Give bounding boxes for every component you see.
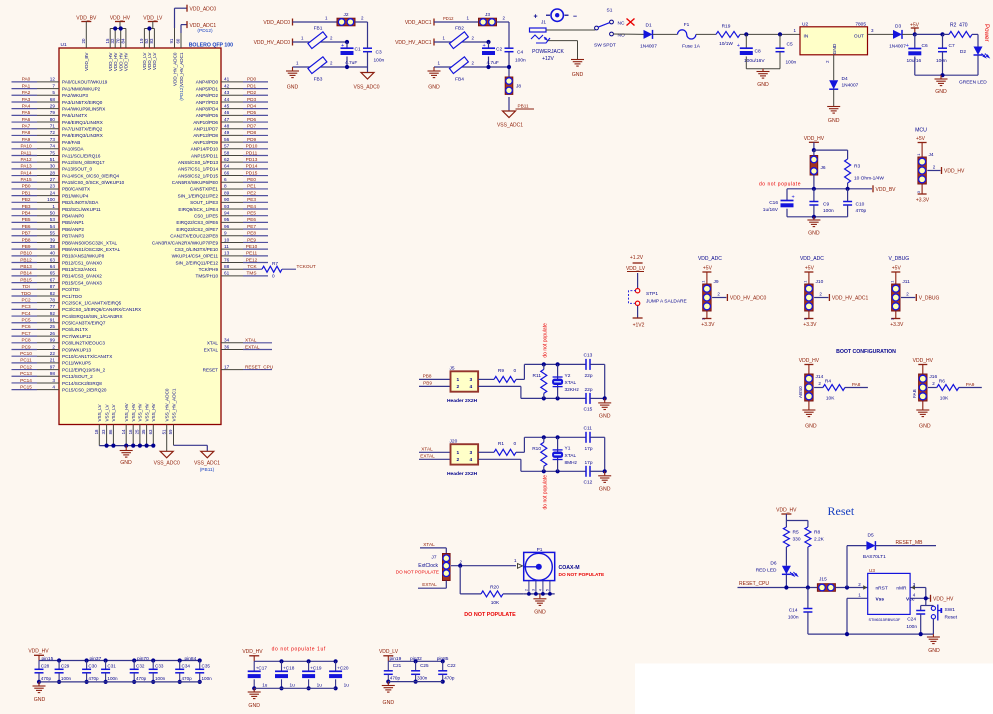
svg-text:C25: C25 bbox=[420, 663, 429, 668]
svg-text:PC15: PC15 bbox=[20, 384, 32, 389]
svg-text:PD1: PD1 bbox=[247, 83, 257, 88]
svg-text:26: 26 bbox=[50, 331, 56, 336]
svg-text:470p: 470p bbox=[41, 676, 52, 681]
svg-text:VDD_ADC0: VDD_ADC0 bbox=[263, 20, 290, 26]
svg-text:PA5/LIN4TX: PA5/LIN4TX bbox=[62, 113, 87, 118]
svg-text:78: 78 bbox=[50, 297, 56, 302]
svg-text:PA12/SIN_0/EIRQ17: PA12/SIN_0/EIRQ17 bbox=[62, 160, 105, 165]
svg-text:(PD12): (PD12) bbox=[197, 28, 213, 34]
svg-text:PA15: PA15 bbox=[20, 177, 32, 182]
svg-text:91: 91 bbox=[169, 38, 174, 43]
svg-text:10K: 10K bbox=[826, 396, 835, 402]
svg-text:ANS7/CS1_1/PD14: ANS7/CS1_1/PD14 bbox=[178, 167, 219, 172]
svg-text:J8: J8 bbox=[516, 84, 521, 90]
svg-text:PB2/LIN0TX/SDA: PB2/LIN0TX/SDA bbox=[62, 200, 99, 205]
svg-text:PB13: PB13 bbox=[20, 264, 32, 269]
svg-text:VSS_ADC0: VSS_ADC0 bbox=[353, 84, 379, 90]
svg-text:PA8/EIRQ3/LIN3RX: PA8/EIRQ3/LIN3RX bbox=[62, 133, 103, 138]
svg-text:+5V: +5V bbox=[703, 266, 713, 272]
svg-text:PC12: PC12 bbox=[20, 364, 32, 369]
svg-text:R2 470: R2 470 bbox=[950, 22, 968, 28]
svg-text:FB3: FB3 bbox=[314, 77, 323, 83]
svg-text:C14: C14 bbox=[789, 607, 798, 613]
svg-text:RESET_CPU: RESET_CPU bbox=[245, 364, 274, 369]
svg-text:C9: C9 bbox=[823, 201, 829, 207]
svg-text:0: 0 bbox=[514, 441, 517, 447]
svg-text:100n: 100n bbox=[61, 676, 72, 681]
svg-text:Reset: Reset bbox=[945, 615, 958, 621]
svg-text:MCU: MCU bbox=[915, 127, 927, 133]
svg-text:ANS5/CS0_1/PD13: ANS5/CS0_1/PD13 bbox=[178, 160, 219, 165]
svg-text:PB5: PB5 bbox=[22, 217, 31, 222]
svg-text:R20: R20 bbox=[490, 584, 499, 590]
svg-text:58: 58 bbox=[224, 150, 230, 155]
svg-text:32: 32 bbox=[110, 38, 115, 43]
svg-text:PA4/WKUP9/LIN5RX: PA4/WKUP9/LIN5RX bbox=[62, 106, 105, 111]
svg-text:PB4: PB4 bbox=[22, 211, 31, 216]
svg-text:SIN_1/EIRQ21/PE2: SIN_1/EIRQ21/PE2 bbox=[178, 193, 219, 198]
svg-text:PC7/WKUP12: PC7/WKUP12 bbox=[62, 334, 92, 339]
svg-text:PC9/WKUP13: PC9/WKUP13 bbox=[62, 347, 92, 352]
svg-text:GND: GND bbox=[919, 424, 931, 430]
svg-text:PD7: PD7 bbox=[247, 124, 257, 129]
svg-text:J14: J14 bbox=[816, 374, 824, 380]
svg-text:R3: R3 bbox=[854, 164, 860, 170]
svg-text:BOOT CONFIGURATION: BOOT CONFIGURATION bbox=[836, 349, 896, 355]
svg-text:SOUT_1/PE3: SOUT_1/PE3 bbox=[190, 200, 218, 205]
svg-text:PC6/LIN1TX: PC6/LIN1TX bbox=[62, 327, 88, 332]
svg-text:C15: C15 bbox=[584, 406, 593, 412]
svg-text:10: 10 bbox=[224, 237, 230, 242]
svg-text:+3.3V: +3.3V bbox=[701, 322, 715, 328]
svg-text:VDD_HV: VDD_HV bbox=[113, 52, 118, 72]
svg-text:91: 91 bbox=[50, 318, 56, 323]
svg-text:GND: GND bbox=[120, 460, 132, 466]
svg-text:470p: 470p bbox=[856, 208, 867, 214]
svg-text:PD3: PD3 bbox=[247, 97, 257, 102]
svg-text:3: 3 bbox=[52, 378, 55, 383]
svg-text:Y1: Y1 bbox=[565, 446, 571, 452]
svg-text:82: 82 bbox=[50, 291, 56, 296]
svg-text:PE1: PE1 bbox=[247, 184, 256, 189]
svg-text:EXTAL: EXTAL bbox=[420, 454, 435, 459]
svg-text:54: 54 bbox=[50, 224, 56, 229]
svg-text:PA6/EIRQ1/LIN4RX: PA6/EIRQ1/LIN4RX bbox=[62, 120, 103, 125]
svg-text:PB7: PB7 bbox=[22, 231, 31, 236]
svg-text:D2: D2 bbox=[960, 49, 966, 55]
svg-text:J16: J16 bbox=[929, 374, 937, 380]
svg-text:PE7: PE7 bbox=[247, 224, 256, 229]
svg-text:28: 28 bbox=[50, 170, 56, 175]
svg-text:GND: GND bbox=[248, 703, 260, 709]
svg-text:PC5/CAN3TX/EIRQ7: PC5/CAN3TX/EIRQ7 bbox=[62, 321, 106, 326]
svg-text:GND: GND bbox=[832, 43, 838, 54]
svg-text:Fuse 1A: Fuse 1A bbox=[682, 43, 701, 49]
svg-text:CS3_0/LIN3TX/PE10: CS3_0/LIN3TX/PE10 bbox=[175, 247, 219, 252]
svg-text:pin19: pin19 bbox=[390, 656, 402, 662]
svg-text:VDD_BV: VDD_BV bbox=[76, 16, 97, 22]
svg-text:PA8: PA8 bbox=[852, 382, 861, 387]
svg-text:C34: C34 bbox=[182, 663, 191, 668]
svg-text:17: 17 bbox=[224, 364, 230, 369]
svg-text:VDD_HV: VDD_HV bbox=[28, 649, 49, 655]
svg-text:PC6: PC6 bbox=[21, 324, 31, 329]
svg-text:PA1: PA1 bbox=[22, 83, 31, 88]
svg-text:ANP12/PD8: ANP12/PD8 bbox=[193, 133, 218, 138]
svg-text:1: 1 bbox=[457, 450, 460, 456]
svg-text:3: 3 bbox=[470, 377, 473, 383]
svg-text:PC1/TDO: PC1/TDO bbox=[62, 294, 82, 299]
svg-text:65: 65 bbox=[50, 271, 56, 276]
svg-text:VDD_HV: VDD_HV bbox=[124, 52, 129, 72]
svg-text:1u/16V: 1u/16V bbox=[763, 207, 779, 213]
svg-text:GND: GND bbox=[428, 84, 440, 90]
svg-text:C1: C1 bbox=[355, 47, 361, 53]
svg-text:ANP4/PD0: ANP4/PD0 bbox=[196, 80, 219, 85]
svg-text:100u/16V: 100u/16V bbox=[744, 58, 765, 64]
svg-text:74: 74 bbox=[50, 144, 56, 149]
svg-text:PB13/CS2/ANX1: PB13/CS2/ANX1 bbox=[62, 267, 97, 272]
svg-text:GND: GND bbox=[757, 82, 769, 88]
svg-text:VSS_HV: VSS_HV bbox=[131, 402, 136, 421]
svg-text:C30: C30 bbox=[88, 663, 97, 668]
svg-text:PD13: PD13 bbox=[246, 157, 258, 162]
svg-text:0: 0 bbox=[272, 273, 275, 278]
svg-text:18: 18 bbox=[94, 429, 99, 434]
svg-text:+: + bbox=[737, 43, 740, 49]
svg-text:PA8: PA8 bbox=[22, 130, 31, 135]
svg-text:7: 7 bbox=[52, 83, 55, 88]
svg-text:VDD_ADC1: VDD_ADC1 bbox=[405, 20, 432, 26]
svg-text:PA11/SCL/EIRQ16: PA11/SCL/EIRQ16 bbox=[62, 153, 101, 158]
svg-text:4: 4 bbox=[52, 384, 55, 389]
svg-text:ExtClock: ExtClock bbox=[418, 563, 438, 569]
svg-text:PA5: PA5 bbox=[22, 110, 31, 115]
svg-text:U2: U2 bbox=[802, 21, 808, 27]
svg-text:4: 4 bbox=[470, 457, 473, 463]
svg-text:57: 57 bbox=[224, 144, 230, 149]
svg-text:PB9/ANS1/OSC32K_EXTAL: PB9/ANS1/OSC32K_EXTAL bbox=[62, 247, 121, 252]
svg-text:61: 61 bbox=[224, 271, 230, 276]
svg-text:C2: C2 bbox=[496, 47, 502, 53]
svg-text:STP1: STP1 bbox=[646, 291, 658, 297]
svg-text:100n: 100n bbox=[107, 676, 118, 681]
svg-text:PA7/LIN3TX/EIRQ2: PA7/LIN3TX/EIRQ2 bbox=[62, 127, 103, 132]
svg-text:D1: D1 bbox=[646, 22, 652, 28]
svg-text:VSS_HV: VSS_HV bbox=[151, 402, 156, 421]
svg-text:80: 80 bbox=[50, 117, 56, 122]
svg-text:100: 100 bbox=[47, 197, 55, 202]
svg-text:−: − bbox=[573, 14, 577, 21]
svg-text:C22: C22 bbox=[447, 663, 456, 668]
svg-text:PA10: PA10 bbox=[20, 144, 32, 149]
svg-text:C7: C7 bbox=[949, 43, 955, 49]
svg-text:67: 67 bbox=[50, 277, 56, 282]
svg-text:D3: D3 bbox=[895, 24, 901, 30]
svg-text:R4: R4 bbox=[825, 378, 831, 384]
svg-text:PB5/ANP1: PB5/ANP1 bbox=[62, 220, 84, 225]
svg-text:+3.3V: +3.3V bbox=[890, 322, 904, 328]
svg-text:PC3/CS0_1/EIRQ6/CAN4RX/CAN1RX: PC3/CS0_1/EIRQ6/CAN4RX/CAN1RX bbox=[62, 307, 141, 312]
svg-text:VDD_ADC0: VDD_ADC0 bbox=[190, 7, 217, 13]
svg-text:VDD_LV: VDD_LV bbox=[143, 16, 163, 22]
svg-text:60: 60 bbox=[176, 38, 181, 43]
svg-text:PB11: PB11 bbox=[518, 104, 530, 109]
svg-text:C32: C32 bbox=[136, 663, 145, 668]
svg-text:VDD_HV: VDD_HV bbox=[913, 358, 934, 364]
svg-text:ANP5/PD1: ANP5/PD1 bbox=[196, 86, 219, 91]
svg-text:VDD_HV_ADC0: VDD_HV_ADC0 bbox=[172, 52, 177, 86]
svg-text:49: 49 bbox=[224, 130, 230, 135]
svg-text:TCK/PH9: TCK/PH9 bbox=[199, 267, 219, 272]
svg-text:98: 98 bbox=[50, 371, 56, 376]
svg-text:8MHz: 8MHz bbox=[565, 460, 578, 466]
svg-text:Header 2X2H: Header 2X2H bbox=[447, 398, 478, 404]
svg-text:do not populate: do not populate bbox=[543, 323, 549, 358]
svg-text:VDD_HV_ADC1: VDD_HV_ADC1 bbox=[179, 52, 184, 86]
svg-text:RESET: RESET bbox=[203, 367, 219, 372]
svg-text:TDO: TDO bbox=[21, 291, 31, 296]
svg-text:GND: GND bbox=[383, 700, 395, 706]
svg-text:79: 79 bbox=[50, 110, 56, 115]
svg-text:PB7/ANP3: PB7/ANP3 bbox=[62, 234, 84, 239]
svg-text:PC12/EIRQ19/SIN_2: PC12/EIRQ19/SIN_2 bbox=[62, 367, 106, 372]
svg-text:1u: 1u bbox=[262, 683, 268, 688]
svg-text:PC3: PC3 bbox=[21, 304, 31, 309]
svg-text:+3.3V: +3.3V bbox=[916, 198, 930, 204]
svg-text:do not populate: do not populate bbox=[543, 475, 549, 510]
svg-text:PD11: PD11 bbox=[246, 150, 258, 155]
svg-text:PD14: PD14 bbox=[246, 164, 258, 169]
svg-text:ANP13/PD9: ANP13/PD9 bbox=[193, 140, 218, 145]
svg-text:470p: 470p bbox=[444, 676, 455, 681]
svg-text:+5V: +5V bbox=[892, 266, 902, 272]
svg-text:ANP11/PD7: ANP11/PD7 bbox=[194, 127, 219, 132]
svg-text:10u/16: 10u/16 bbox=[907, 58, 922, 64]
svg-text:PB4/ANP0: PB4/ANP0 bbox=[62, 214, 84, 219]
svg-text:+C18: +C18 bbox=[283, 665, 295, 670]
svg-text:TCKOUT: TCKOUT bbox=[297, 264, 316, 269]
svg-text:4: 4 bbox=[539, 589, 543, 591]
svg-text:D4: D4 bbox=[842, 76, 848, 82]
svg-text:87: 87 bbox=[50, 284, 56, 289]
svg-text:PB0: PB0 bbox=[22, 184, 31, 189]
svg-text:ANP10/PD6: ANP10/PD6 bbox=[193, 120, 218, 125]
svg-text:PA9: PA9 bbox=[966, 382, 975, 387]
svg-text:0: 0 bbox=[514, 368, 517, 374]
svg-text:10K: 10K bbox=[491, 600, 500, 606]
svg-text:PC8/LIN2TX/EOUC3: PC8/LIN2TX/EOUC3 bbox=[62, 341, 105, 346]
svg-text:VDD_LV: VDD_LV bbox=[152, 52, 157, 70]
svg-text:73: 73 bbox=[50, 137, 56, 142]
svg-text:35: 35 bbox=[141, 429, 146, 434]
svg-text:17p: 17p bbox=[585, 446, 593, 452]
svg-text:34: 34 bbox=[224, 338, 230, 343]
svg-text:PC8: PC8 bbox=[21, 338, 31, 343]
svg-text:100n: 100n bbox=[202, 676, 213, 681]
svg-text:4.7uF: 4.7uF bbox=[345, 60, 357, 66]
svg-text:+: + bbox=[341, 43, 344, 49]
svg-text:EIRQ22/CS3_0/PE6: EIRQ22/CS3_0/PE6 bbox=[176, 220, 218, 225]
svg-text:PA0/CLKOUT/WKU19: PA0/CLKOUT/WKU19 bbox=[62, 80, 108, 85]
svg-text:XTAL: XTAL bbox=[421, 447, 433, 452]
svg-text:PA13: PA13 bbox=[20, 164, 32, 169]
svg-text:FB2: FB2 bbox=[455, 26, 464, 32]
svg-text:29: 29 bbox=[50, 103, 56, 108]
svg-text:PE4: PE4 bbox=[247, 204, 256, 209]
svg-text:PE9: PE9 bbox=[247, 237, 256, 242]
svg-text:J6: J6 bbox=[821, 165, 826, 171]
svg-text:68: 68 bbox=[50, 97, 56, 102]
svg-text:100n: 100n bbox=[823, 208, 834, 214]
svg-text:30: 30 bbox=[50, 164, 56, 169]
svg-text:330n: 330n bbox=[417, 676, 428, 681]
svg-text:62: 62 bbox=[224, 157, 230, 162]
svg-text:VDD_HV_ADC0: VDD_HV_ADC0 bbox=[730, 296, 767, 302]
svg-text:84: 84 bbox=[121, 38, 126, 43]
svg-text:PC2: PC2 bbox=[21, 297, 31, 302]
svg-text:J20: J20 bbox=[450, 439, 458, 445]
svg-text:PE12: PE12 bbox=[246, 257, 258, 262]
svg-text:470p: 470p bbox=[182, 676, 193, 681]
svg-text:DO NOT POPULATE: DO NOT POPULATE bbox=[559, 572, 606, 578]
svg-text:C12: C12 bbox=[584, 479, 593, 485]
svg-text:PB12/CS1_0/ANX0: PB12/CS1_0/ANX0 bbox=[62, 260, 102, 265]
svg-text:+3.3V: +3.3V bbox=[803, 322, 817, 328]
svg-text:ANP7/PD3: ANP7/PD3 bbox=[196, 100, 219, 105]
svg-text:40: 40 bbox=[50, 251, 56, 256]
svg-text:11: 11 bbox=[224, 244, 229, 249]
svg-text:PA14/SCK_0/CS0_0/EIRQ4: PA14/SCK_0/CS0_0/EIRQ4 bbox=[62, 173, 120, 178]
svg-text:PA13/SOUT_0: PA13/SOUT_0 bbox=[62, 167, 92, 172]
svg-text:7805: 7805 bbox=[855, 21, 866, 27]
svg-text:BOLERO QFP 100: BOLERO QFP 100 bbox=[189, 42, 233, 48]
svg-text:PA7: PA7 bbox=[22, 124, 31, 129]
svg-text:43: 43 bbox=[224, 90, 230, 95]
svg-text:PA2/WKUP3: PA2/WKUP3 bbox=[62, 93, 88, 98]
svg-text:100n: 100n bbox=[936, 58, 947, 64]
svg-text:51: 51 bbox=[161, 429, 166, 434]
svg-text:100n: 100n bbox=[374, 58, 385, 64]
svg-text:CAN5TX/PE1: CAN5TX/PE1 bbox=[190, 187, 219, 192]
svg-text:J15: J15 bbox=[819, 577, 827, 583]
svg-text:VDD_BV: VDD_BV bbox=[876, 187, 897, 193]
svg-text:13: 13 bbox=[224, 251, 230, 256]
svg-text:VSS_HV: VSS_HV bbox=[138, 402, 143, 421]
svg-text:PA15/CS0_0/SCK_0/WKUP10: PA15/CS0_0/SCK_0/WKUP10 bbox=[62, 180, 125, 185]
svg-text:PB12: PB12 bbox=[20, 257, 32, 262]
svg-text:PD4: PD4 bbox=[247, 103, 257, 108]
svg-text:SW1: SW1 bbox=[945, 607, 956, 613]
svg-text:PD0: PD0 bbox=[247, 77, 257, 82]
svg-text:nRST: nRST bbox=[876, 585, 888, 591]
svg-text:GND: GND bbox=[935, 89, 947, 95]
svg-text:VSS_ADC1: VSS_ADC1 bbox=[497, 123, 523, 129]
svg-text:1u: 1u bbox=[317, 683, 323, 688]
svg-text:STM6315RBW13F: STM6315RBW13F bbox=[869, 618, 902, 622]
svg-text:D5: D5 bbox=[868, 533, 874, 539]
svg-text:C33: C33 bbox=[155, 663, 164, 668]
svg-text:PA12: PA12 bbox=[20, 157, 32, 162]
svg-text:XTAL: XTAL bbox=[423, 542, 435, 547]
svg-text:C4: C4 bbox=[517, 50, 523, 56]
svg-text:PB15: PB15 bbox=[20, 277, 32, 282]
svg-text:nMR: nMR bbox=[896, 585, 907, 591]
svg-text:PB9: PB9 bbox=[22, 244, 31, 249]
svg-text:C16: C16 bbox=[769, 200, 778, 206]
svg-text:PE2: PE2 bbox=[247, 190, 256, 195]
svg-text:+C20: +C20 bbox=[337, 665, 349, 670]
svg-text:45: 45 bbox=[224, 103, 230, 108]
svg-text:+C19: +C19 bbox=[310, 665, 322, 670]
svg-text:POWERJACK: POWERJACK bbox=[532, 49, 564, 55]
svg-text:C28: C28 bbox=[41, 663, 50, 668]
svg-text:2: 2 bbox=[52, 344, 55, 349]
svg-text:50: 50 bbox=[50, 211, 56, 216]
svg-text:97: 97 bbox=[50, 364, 56, 369]
svg-text:JUMP A SALDARE: JUMP A SALDARE bbox=[646, 299, 687, 305]
svg-text:GND: GND bbox=[534, 610, 546, 616]
svg-text:EXTAL: EXTAL bbox=[245, 344, 260, 349]
svg-text:+: + bbox=[792, 195, 795, 201]
svg-text:VDD_HV: VDD_HV bbox=[799, 358, 820, 364]
svg-text:VDD_ADC: VDD_ADC bbox=[698, 256, 722, 262]
svg-text:9: 9 bbox=[224, 231, 227, 236]
svg-text:XTAL: XTAL bbox=[565, 380, 577, 386]
svg-text:VDD_BV: VDD_BV bbox=[84, 52, 89, 71]
svg-text:FB1: FB1 bbox=[314, 26, 323, 32]
svg-text:pin15: pin15 bbox=[42, 656, 54, 662]
svg-text:ABS0: ABS0 bbox=[798, 386, 803, 398]
svg-text:RESET_CPU: RESET_CPU bbox=[739, 581, 769, 587]
svg-text:100n: 100n bbox=[786, 60, 797, 66]
svg-text:63: 63 bbox=[50, 257, 56, 262]
svg-text:VDD_HV: VDD_HV bbox=[110, 16, 131, 22]
svg-text:63: 63 bbox=[148, 429, 153, 434]
svg-text:100n: 100n bbox=[788, 614, 799, 620]
svg-text:CAN2TX/EOUC22/PE8: CAN2TX/EOUC22/PE8 bbox=[170, 234, 218, 239]
svg-text:PA2: PA2 bbox=[22, 90, 31, 95]
svg-text:PD5: PD5 bbox=[247, 110, 257, 115]
svg-text:VDD_HV: VDD_HV bbox=[776, 508, 797, 514]
svg-text:+5V: +5V bbox=[805, 266, 815, 272]
svg-text:71: 71 bbox=[50, 124, 56, 129]
svg-text:do not populate 1uf: do not populate 1uf bbox=[272, 647, 326, 653]
svg-text:2: 2 bbox=[525, 589, 529, 591]
svg-text:27: 27 bbox=[50, 177, 56, 182]
svg-text:PE3: PE3 bbox=[247, 197, 256, 202]
svg-text:1: 1 bbox=[52, 204, 55, 209]
svg-text:D6: D6 bbox=[770, 561, 776, 567]
svg-text:GND: GND bbox=[805, 424, 817, 430]
svg-text:39: 39 bbox=[50, 237, 56, 242]
svg-text:+5V: +5V bbox=[916, 136, 926, 142]
svg-text:COAX-M: COAX-M bbox=[559, 565, 580, 571]
svg-text:PA9/FAB: PA9/FAB bbox=[62, 140, 80, 145]
svg-text:PC11/WKUP5: PC11/WKUP5 bbox=[62, 361, 91, 366]
svg-text:C24: C24 bbox=[907, 617, 916, 623]
svg-text:46: 46 bbox=[224, 110, 230, 115]
svg-text:PC4/EIRQ18/SIN_1/CAN3RX: PC4/EIRQ18/SIN_1/CAN3RX bbox=[62, 314, 123, 319]
svg-text:VSS_HV: VSS_HV bbox=[144, 402, 149, 421]
svg-text:17p: 17p bbox=[585, 460, 593, 466]
svg-text:GND: GND bbox=[34, 697, 46, 703]
svg-text:WKUP14/CS4_0/PE11: WKUP14/CS4_0/PE11 bbox=[172, 254, 219, 259]
svg-text:XTAL: XTAL bbox=[565, 453, 577, 459]
svg-text:100n: 100n bbox=[515, 58, 526, 64]
svg-text:PB0/CAN0TX: PB0/CAN0TX bbox=[62, 187, 90, 192]
svg-text:PD8: PD8 bbox=[247, 130, 257, 135]
